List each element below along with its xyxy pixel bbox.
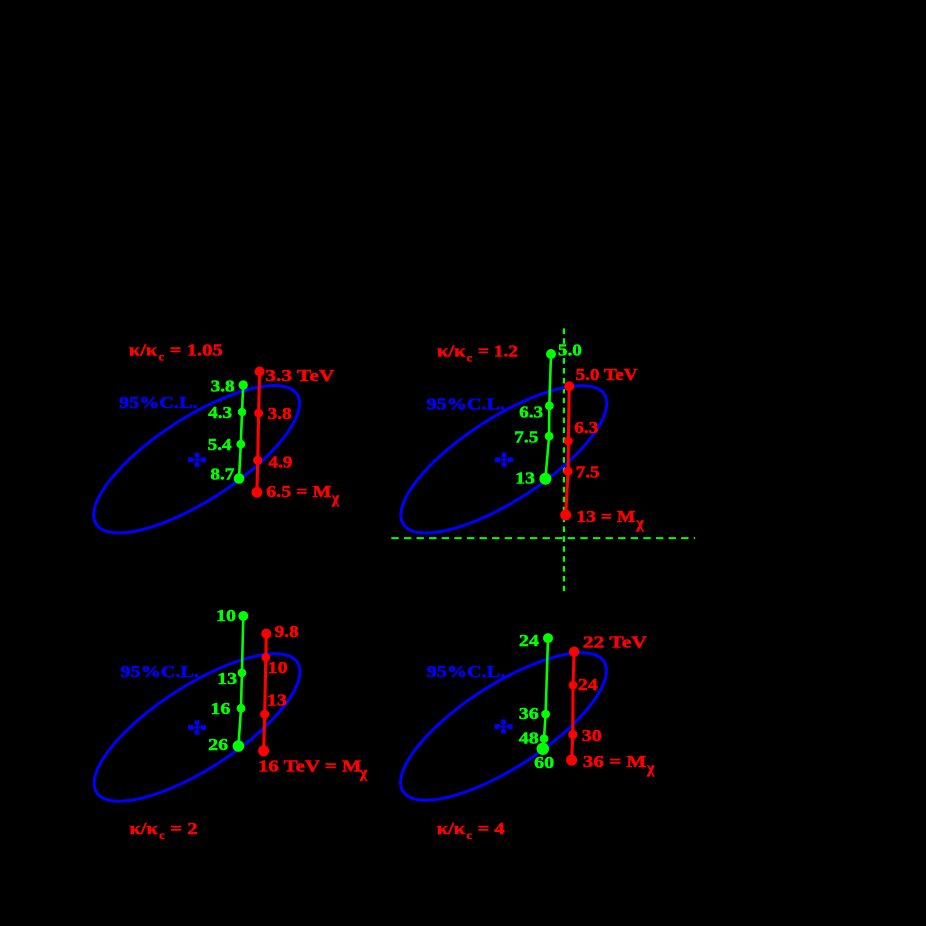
svg-text:c: c [159, 350, 165, 364]
panel 1 green dot 2 [238, 408, 246, 416]
svg-text:24: 24 [578, 675, 599, 694]
svg-text:6.3: 6.3 [574, 418, 598, 437]
svg-text:3.8: 3.8 [211, 376, 235, 395]
panel 3 red dot 1 [261, 629, 271, 639]
svg-text:c: c [159, 828, 165, 842]
svg-text:κ/κ: κ/κ [129, 341, 158, 360]
panel 2 green dot 1 [546, 349, 556, 359]
svg-text:= 2: = 2 [170, 819, 197, 838]
panel 2 red line [566, 386, 570, 515]
svg-text:3.3 TeV: 3.3 TeV [265, 366, 335, 385]
svg-text:16: 16 [210, 699, 230, 718]
panel 1 red dot 4 [252, 487, 263, 498]
svg-text:κ/κ: κ/κ [129, 819, 158, 838]
svg-text:c: c [467, 351, 473, 365]
svg-text:c: c [467, 828, 473, 842]
blue center cross marker panel 2 [496, 453, 513, 466]
svg-text:30: 30 [582, 726, 602, 745]
panel 3 green dot 3 [237, 704, 246, 713]
panel 1 green dot 4 [234, 473, 245, 484]
svg-text:13: 13 [515, 469, 535, 488]
svg-text:χ: χ [359, 765, 368, 782]
blue 95% C.L. ellipse panel 4 [381, 627, 627, 827]
svg-text:60: 60 [534, 753, 554, 772]
blue center cross marker panel 4 [495, 720, 512, 733]
svg-text:χ: χ [635, 515, 644, 532]
svg-text:4.9: 4.9 [268, 452, 292, 471]
panel 1 red line [257, 372, 260, 493]
svg-text:= 1.2: = 1.2 [478, 342, 518, 361]
svg-text:22 TeV: 22 TeV [583, 633, 648, 652]
panel 3 green dot 1 [238, 611, 248, 621]
svg-text:24: 24 [519, 631, 540, 650]
panel 2 green dot 2 [545, 401, 554, 410]
panel 4 green line [543, 638, 548, 749]
blue center cross marker panel 1 [189, 453, 206, 466]
svg-text:13: 13 [267, 691, 287, 710]
svg-text:36 = M: 36 = M [583, 752, 647, 771]
svg-text:6.5 = M: 6.5 = M [266, 482, 331, 501]
svg-text:5.4: 5.4 [208, 435, 233, 454]
svg-text:7.5: 7.5 [514, 427, 538, 446]
svg-text:3.8: 3.8 [268, 404, 292, 423]
panel 4 green dot 4 [537, 743, 549, 755]
panel 4 red dot 4 [566, 755, 577, 766]
panel 3 red dot 3 [260, 710, 269, 719]
svg-text:95%C.L.: 95%C.L. [427, 395, 506, 414]
panel 2 red dot 1 [564, 381, 574, 391]
svg-text:13: 13 [217, 669, 237, 688]
svg-text:6.3: 6.3 [519, 402, 543, 421]
svg-text:7.5: 7.5 [576, 462, 600, 481]
panel 2 green dot 4 [539, 473, 551, 485]
panel 3 green dot 4 [233, 740, 245, 752]
panel 3 green line [238, 616, 243, 746]
panel 1 red dot 2 [254, 409, 263, 418]
panel 1 red dot 3 [253, 456, 262, 465]
svg-text:36: 36 [519, 704, 539, 723]
panel 4 green dot 1 [543, 633, 553, 643]
green dashed horizontal reference line [391, 537, 695, 539]
panel 4 red dot 3 [568, 730, 577, 739]
svg-text:χ: χ [646, 760, 655, 777]
svg-text:κ/κ: κ/κ [437, 342, 466, 361]
svg-text:26: 26 [208, 735, 228, 754]
svg-text:5.0: 5.0 [558, 340, 582, 359]
svg-text:5.0 TeV: 5.0 TeV [576, 365, 639, 384]
svg-text:95%C.L.: 95%C.L. [120, 662, 198, 681]
blue 95% C.L. ellipse panel 2 [381, 359, 627, 559]
svg-text:= 1.05: = 1.05 [170, 341, 223, 360]
panel 4 green dot 3 [540, 734, 549, 743]
svg-text:13 = M: 13 = M [576, 507, 635, 526]
svg-text:4.3: 4.3 [208, 403, 232, 422]
panel 1 red dot 1 [255, 367, 265, 377]
svg-text:10: 10 [268, 658, 288, 677]
svg-text:8.7: 8.7 [210, 464, 235, 483]
panel 2 red dot 4 [560, 510, 571, 521]
svg-text:9.8: 9.8 [275, 622, 299, 641]
panel 1 green dot 3 [236, 440, 245, 449]
panel 3 red line [264, 634, 267, 751]
blue 95% C.L. ellipse panel 3 [74, 628, 320, 828]
svg-text:95%C.L.: 95%C.L. [427, 662, 506, 681]
panel 2 green line [545, 354, 551, 479]
svg-text:10: 10 [216, 606, 236, 625]
svg-text:16 TeV = M: 16 TeV = M [258, 756, 362, 775]
panel 1 green dot 1 [239, 380, 248, 389]
panel 3 green dot 2 [238, 669, 247, 678]
svg-text:κ/κ: κ/κ [437, 819, 466, 838]
svg-text:48: 48 [519, 729, 539, 748]
panel 1 green line [239, 385, 243, 479]
svg-text:χ: χ [331, 490, 340, 507]
panel 3 red dot 2 [261, 653, 270, 662]
panel 4 red line [572, 652, 575, 760]
green dashed vertical reference line [563, 328, 565, 591]
panel 3 red dot 4 [258, 745, 269, 756]
panel 2 red dot 2 [564, 437, 573, 446]
panel 4 red dot 2 [569, 681, 578, 690]
panel 2 red dot 3 [563, 467, 572, 476]
panel 4 red dot 1 [569, 647, 579, 657]
blue center cross marker panel 3 [189, 721, 206, 734]
panel 2 green dot 3 [545, 432, 554, 441]
svg-text:95%C.L.: 95%C.L. [119, 393, 198, 412]
panel 4 green dot 2 [541, 710, 550, 719]
svg-text:= 4: = 4 [478, 819, 506, 838]
blue 95% C.L. ellipse panel 1 [74, 359, 320, 559]
